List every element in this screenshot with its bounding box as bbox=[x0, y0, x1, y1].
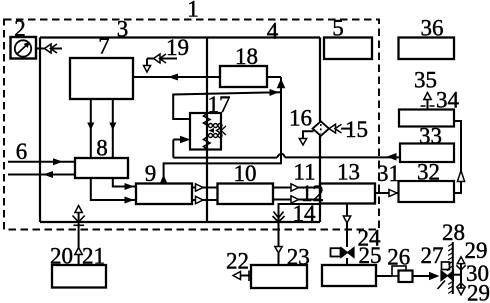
wire: tank 24/25 to filter 26 bbox=[376, 275, 392, 277]
arrow up into H3 from box 9 bbox=[160, 175, 167, 184]
wire H2: long return line to box 33 bbox=[173, 154, 400, 158]
tank 20/21 bbox=[52, 265, 106, 288]
wires: box 9 to box 10 bbox=[192, 188, 218, 201]
valve 17 spring bottom bbox=[204, 137, 211, 149]
wire 6 return bbox=[8, 174, 75, 176]
valve 25 bbox=[341, 248, 354, 258]
arrow up on riser bbox=[277, 79, 286, 89]
wire: box 32 up to box 34 bbox=[454, 121, 461, 193]
svg-text:16: 16 bbox=[289, 106, 312, 131]
valve 27 bbox=[441, 271, 454, 281]
svg-text:18: 18 bbox=[235, 44, 258, 69]
wire: box 14 down to tank 22/23 bbox=[278, 222, 280, 265]
svg-text:6: 6 bbox=[16, 139, 28, 164]
tank 22/23 bbox=[251, 265, 307, 288]
vent 35 above box 34 bbox=[427, 99, 429, 110]
svg-text:34: 34 bbox=[436, 88, 460, 113]
arrow into box 7 bbox=[168, 74, 178, 81]
chevrons on box 14 left edge bbox=[274, 212, 284, 219]
box 9 bbox=[136, 184, 192, 205]
relief valve 19 bbox=[147, 59, 177, 67]
svg-text:15: 15 bbox=[345, 117, 368, 142]
drain box 14 bbox=[279, 204, 321, 222]
svg-text:36: 36 bbox=[421, 16, 444, 41]
valve 17 body bbox=[190, 113, 221, 150]
wire 6 inlet bbox=[8, 161, 75, 163]
dashed enclosure 1 bbox=[4, 20, 379, 230]
cooler 18 bbox=[220, 66, 267, 87]
pump unit 7 bbox=[70, 58, 133, 99]
wire: box 13 down to valve 25 bbox=[346, 204, 348, 248]
check valve 15 bbox=[341, 128, 351, 130]
arrow up on riser 32-34 bbox=[457, 171, 464, 182]
box 33 bbox=[400, 144, 454, 163]
solid inner enclosure (regions 3 and 4) bbox=[40, 38, 320, 223]
wire H3: drain line from box 9 to riser bbox=[164, 158, 281, 184]
check symbol on gauge line bbox=[45, 44, 52, 53]
svg-text:10: 10 bbox=[234, 161, 257, 186]
valve 27 lever bbox=[438, 281, 446, 290]
diamond filter 16 bbox=[313, 121, 329, 136]
valve 17 spring top bbox=[204, 114, 211, 126]
gauge 2 needle bbox=[17, 46, 26, 55]
wire: filter 26 to valve 27 bbox=[413, 275, 431, 277]
pump 8 bbox=[75, 158, 128, 178]
filter 26 double box bbox=[392, 266, 406, 276]
gauge 2 dial bbox=[15, 40, 31, 56]
wires: box 10 to box 13 bbox=[273, 188, 320, 200]
valve 17 solenoid dots row 1 bbox=[209, 124, 223, 138]
arrow left on H2 near box 33 bbox=[387, 153, 397, 161]
reservoir 5 bbox=[324, 38, 372, 60]
arrow right on loop wire bbox=[270, 89, 280, 96]
svg-text:17: 17 bbox=[208, 92, 231, 117]
wire: gauge 2 to region 3 bbox=[36, 48, 62, 50]
svg-text:31: 31 bbox=[377, 161, 400, 186]
wire: box 18 to riser bbox=[267, 76, 281, 78]
svg-text:5: 5 bbox=[332, 16, 344, 41]
svg-text:19: 19 bbox=[166, 35, 189, 60]
gauge 2 box bbox=[11, 37, 37, 59]
drain of filter 16 bbox=[303, 131, 314, 139]
tank 24/25 bbox=[322, 265, 376, 286]
svg-text:7: 7 bbox=[98, 34, 110, 59]
svg-text:4: 4 bbox=[267, 19, 279, 44]
svg-text:23: 23 bbox=[287, 245, 310, 270]
box 13 bbox=[320, 184, 375, 204]
svg-text:1: 1 bbox=[187, 0, 199, 22]
svg-text:29: 29 bbox=[467, 281, 490, 303]
svg-text:9: 9 bbox=[145, 161, 157, 186]
nozzle line 29/30 bbox=[460, 259, 462, 292]
svg-text:2: 2 bbox=[14, 16, 26, 41]
box 32 bbox=[399, 181, 455, 202]
reservoir 36 bbox=[399, 38, 455, 60]
svg-text:14: 14 bbox=[293, 201, 317, 226]
wire: lower port into valve 17 with arrow bbox=[172, 140, 174, 158]
valve 17 arrows bbox=[209, 128, 215, 133]
svg-text:29: 29 bbox=[465, 238, 488, 263]
wire: box 17 upper loop to riser bbox=[173, 92, 281, 119]
svg-text:32: 32 bbox=[417, 160, 440, 185]
svg-text:27: 27 bbox=[421, 243, 444, 268]
svg-text:3: 3 bbox=[117, 17, 129, 42]
svg-text:26: 26 bbox=[387, 245, 410, 270]
wall 28 bbox=[452, 242, 454, 294]
svg-text:20: 20 bbox=[50, 244, 73, 269]
wires: box 8 to box 9 bbox=[113, 178, 136, 187]
wires: box 7 down to box 8 bbox=[91, 99, 113, 158]
svg-text:8: 8 bbox=[96, 136, 108, 161]
wire: divider between region 3 and 4 bbox=[206, 38, 208, 223]
svg-text:33: 33 bbox=[419, 124, 442, 149]
svg-text:21: 21 bbox=[82, 244, 105, 269]
svg-text:22: 22 bbox=[226, 249, 249, 274]
wire: port 20/21 bbox=[78, 212, 80, 265]
svg-text:28: 28 bbox=[442, 220, 465, 245]
wire: box 13 to box 32 bbox=[375, 192, 399, 194]
svg-text:35: 35 bbox=[414, 68, 437, 93]
wire: box 7 to box 18 bbox=[133, 76, 220, 78]
svg-text:13: 13 bbox=[337, 160, 360, 185]
wire: wall to nozzle 29/30 bbox=[454, 274, 461, 276]
box 10 bbox=[218, 184, 274, 205]
svg-text:25: 25 bbox=[359, 243, 382, 268]
arrow into valve 27 bbox=[429, 272, 440, 280]
drain arrow 22 bbox=[234, 275, 252, 277]
box 34 bbox=[399, 110, 454, 127]
riser wire x=281 bbox=[280, 77, 282, 164]
